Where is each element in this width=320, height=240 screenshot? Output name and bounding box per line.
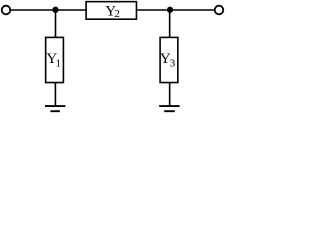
admittance box Y2 (series element) — [86, 2, 136, 20]
admittance box Y3 (right shunt element) — [160, 37, 178, 82]
ground (right) — [159, 105, 179, 107]
port terminal P1 (left, open circle) — [2, 6, 11, 15]
port terminal P2 (right, open circle) — [215, 6, 224, 15]
admittance box Y1 (left shunt element) — [46, 37, 64, 82]
wire: Y3 box down to right ground — [169, 83, 171, 107]
wire: node B down to Y3 box — [169, 10, 171, 38]
svg-text:3: 3 — [170, 58, 176, 70]
junction node A (left dot) — [52, 7, 58, 13]
ground (left) — [45, 105, 65, 107]
svg-text:2: 2 — [114, 8, 120, 20]
wire: node A down to Y1 box — [55, 10, 57, 38]
wire: left terminal to Y2 box (top rail left) — [10, 9, 86, 11]
junction node B (right dot) — [167, 7, 173, 13]
svg-text:1: 1 — [56, 58, 62, 70]
wire: Y1 box down to left ground — [54, 83, 56, 107]
wire: Y2 box to right terminal (top rail right) — [137, 9, 215, 11]
